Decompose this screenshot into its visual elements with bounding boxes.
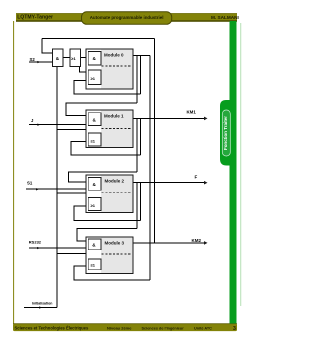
svg-text:LQTMY-Tanger: LQTMY-Tanger: [17, 15, 53, 21]
and gate U1 external: [52, 49, 63, 67]
or gate U2 external: [70, 49, 81, 67]
wire elbow OR gate to module 0 OR input: [80, 67, 89, 73]
module 3 block: [86, 237, 133, 274]
svg-text:≥1: ≥1: [91, 203, 96, 208]
wire feedback right drop: [154, 39, 156, 243]
svg-text:F: F: [195, 175, 198, 180]
wire module 2 self hold loop: [74, 206, 140, 221]
svg-text:Automate programmable industri: Automate programmable industriel: [90, 15, 164, 20]
wire module 0 output: [133, 55, 150, 57]
svg-text:Initialisation: Initialisation: [32, 302, 52, 306]
svg-text:Niveau 2ème: Niveau 2ème: [107, 325, 132, 330]
wire S1 input: [26, 188, 86, 190]
svg-text:S2: S2: [30, 57, 36, 62]
svg-text:Sciences de l’Ingénieur: Sciences de l’Ingénieur: [142, 326, 185, 330]
module 1 block: [86, 110, 133, 148]
svg-text:Fonction Traiter: Fonction Traiter: [223, 116, 228, 150]
wire feedback top: [42, 38, 155, 40]
wire initialisation input: [24, 307, 57, 309]
wire module 3 loop: [74, 266, 150, 280]
svg-text:≥1: ≥1: [91, 263, 96, 268]
and gate cell module 0: [88, 52, 101, 66]
and gate cell module 1: [88, 113, 101, 126]
wire J input: [29, 124, 86, 126]
svg-text:≥1: ≥1: [91, 138, 96, 143]
arrow tick RS232: [37, 247, 40, 249]
arrowheads output KM1: [204, 117, 208, 121]
wire module 2 loop drop: [139, 183, 141, 221]
wire module 1 to module 2 link: [68, 172, 137, 182]
svg-text:S1: S1: [27, 181, 33, 186]
module 2 block: [86, 175, 133, 213]
svg-text:KM1: KM1: [187, 109, 197, 114]
wire module 1 loop drop: [140, 118, 142, 155]
wire F output: [133, 182, 205, 184]
arrowheads output F: [204, 181, 208, 185]
wire feedback left drop: [42, 39, 52, 54]
wire module 2 to module 3 link: [77, 229, 137, 242]
wire gate link: [63, 57, 70, 59]
wire module 1 self hold loop: [71, 142, 141, 156]
left olive margin line: [13, 21, 15, 324]
wire module 0 loop drop: [139, 56, 141, 95]
wire module 1 output drop: [136, 118, 138, 171]
wire bus branch module 1: [57, 129, 86, 131]
right green tab band: [230, 21, 237, 324]
svg-text:Unité ATC: Unité ATC: [194, 326, 212, 330]
header center capsule: [82, 12, 172, 24]
wire module 0 to module 1 link: [66, 103, 137, 116]
wire gate output to module 0: [81, 57, 89, 59]
or gate cell module 3: [88, 259, 101, 270]
svg-text:M. SALMANI: M. SALMANI: [211, 15, 239, 20]
svg-text:Sciences et Technologies Élect: Sciences et Technologies Électriques: [15, 325, 89, 330]
svg-text:Module 2: Module 2: [105, 178, 125, 183]
wire module 0 self hold loop: [74, 81, 140, 95]
wire bus branch module 3: [57, 253, 86, 255]
green tab flare: [220, 100, 237, 166]
wire vertical bus: [56, 67, 58, 308]
svg-text:3: 3: [233, 326, 236, 332]
or gate cell module 0: [88, 70, 101, 85]
arrow tick J: [37, 124, 40, 126]
wire KM2 output: [133, 242, 205, 244]
and gate cell module 3: [88, 239, 101, 250]
svg-text:Module 0: Module 0: [104, 52, 124, 57]
svg-text:≥1: ≥1: [91, 76, 96, 81]
wire bus branch module 2: [57, 192, 86, 194]
svg-text:Module 3: Module 3: [105, 240, 125, 245]
page background: [0, 0, 248, 351]
module 0 block: [86, 49, 133, 89]
svg-text:Module 1: Module 1: [104, 113, 124, 118]
wire long right bus: [149, 56, 151, 281]
and gate cell module 2: [88, 178, 101, 191]
light green echo line: [240, 23, 241, 306]
or gate cell module 2: [88, 198, 101, 211]
svg-text:KM2: KM2: [192, 238, 202, 243]
wire S2 input: [29, 61, 52, 63]
wire module 0 output branch down: [136, 56, 138, 103]
arrow tick initialisation: [39, 306, 42, 308]
arrowheads output KM2: [204, 241, 208, 245]
wire module 2 output drop: [136, 183, 138, 229]
tab capsule: [222, 110, 230, 156]
svg-text:≥1: ≥1: [71, 56, 76, 61]
header bar: [16, 14, 237, 21]
or gate cell module 1: [88, 133, 101, 146]
footer bar: [13, 324, 237, 332]
svg-text:RS232: RS232: [29, 240, 42, 245]
arrow tick S2: [37, 61, 40, 63]
arrow tick S1: [36, 188, 39, 190]
wire RS232 input: [29, 247, 86, 249]
wire KM1 output: [133, 117, 205, 119]
